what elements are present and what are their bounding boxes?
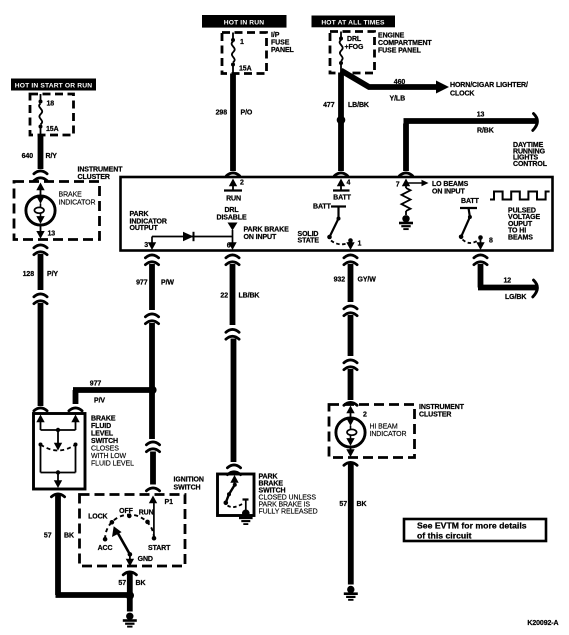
inline connector on wire 22 bbox=[226, 329, 239, 339]
wire end cap at ignition switch P1 bbox=[146, 488, 159, 491]
svg-text:BRAKE: BRAKE bbox=[59, 192, 83, 199]
fuse DRL+FOG bbox=[339, 32, 364, 73]
DRL control module box U1 bbox=[121, 177, 553, 251]
exit arrow at cluster 2 bottom bbox=[346, 447, 354, 458]
connector below pin 6 bbox=[226, 255, 239, 265]
svg-text:18: 18 bbox=[47, 101, 55, 108]
svg-text:K20092-A: K20092-A bbox=[527, 620, 558, 627]
svg-text:WITH LOW: WITH LOW bbox=[91, 453, 126, 460]
svg-text:460: 460 bbox=[394, 79, 406, 86]
svg-text:I/P: I/P bbox=[271, 32, 280, 39]
svg-text:CLUSTER: CLUSTER bbox=[419, 412, 451, 419]
svg-text:CLOSED UNLESS: CLOSED UNLESS bbox=[259, 495, 317, 502]
ignition switch lever bbox=[112, 526, 132, 556]
svg-text:P/V: P/V bbox=[94, 398, 105, 405]
svg-text:INDICATOR: INDICATOR bbox=[59, 200, 96, 207]
svg-text:LB/BK: LB/BK bbox=[348, 102, 369, 109]
svg-text:PARK BRAKE IS: PARK BRAKE IS bbox=[259, 502, 311, 509]
svg-text:SWITCH: SWITCH bbox=[259, 488, 286, 495]
svg-text:BATT: BATT bbox=[461, 198, 480, 205]
wire 12 LG/BK bbox=[478, 264, 537, 301]
svg-text:PANEL: PANEL bbox=[271, 47, 295, 54]
brake fluid level switch box bbox=[34, 414, 86, 490]
svg-text:CLOCK: CLOCK bbox=[450, 91, 474, 98]
pulsed voltage label bbox=[508, 207, 541, 241]
terminal 2 arrow into cluster bbox=[346, 406, 367, 420]
svg-text:HORN/CIGAR LIGHTER/: HORN/CIGAR LIGHTER/ bbox=[450, 82, 528, 89]
svg-text:P/Y: P/Y bbox=[47, 271, 58, 278]
fuse panel box (I/P fuse panel, left) bbox=[30, 94, 74, 135]
connector below pin 3 bbox=[145, 255, 158, 265]
inline connector on wire 932 bbox=[344, 306, 357, 316]
wire 977 middle segment bbox=[149, 323, 155, 439]
label HORN/CIGAR LIGHTER/CLOCK bbox=[450, 82, 528, 98]
instrument cluster box (hi beam indicator) bbox=[329, 405, 415, 458]
svg-text:OFF: OFF bbox=[119, 508, 134, 515]
park brake switch label bbox=[259, 474, 318, 516]
power feed header HOT IN RUN bbox=[202, 15, 287, 28]
svg-text:INSTRUMENT: INSTRUMENT bbox=[78, 167, 124, 174]
fuse 1, 15A bbox=[231, 33, 252, 74]
inline connector on wire 128 bbox=[34, 294, 47, 304]
svg-text:6: 6 bbox=[227, 243, 231, 250]
svg-text:1: 1 bbox=[358, 241, 362, 248]
svg-text:PARK: PARK bbox=[130, 211, 149, 218]
park brake switch box bbox=[218, 474, 255, 516]
svg-text:See EVTM for more details: See EVTM for more details bbox=[417, 521, 527, 531]
svg-text:BEAMS: BEAMS bbox=[508, 235, 533, 242]
instrument cluster box (brake indicator) bbox=[14, 182, 100, 240]
svg-text:OUTPUT: OUTPUT bbox=[130, 225, 159, 232]
svg-text:P1: P1 bbox=[165, 499, 174, 506]
svg-text:640: 640 bbox=[22, 153, 34, 160]
wire 22 lower segment bbox=[231, 339, 237, 463]
wire 932 middle segment bbox=[348, 315, 354, 356]
svg-text:2: 2 bbox=[240, 180, 244, 187]
svg-text:15A: 15A bbox=[239, 66, 252, 73]
junction 977 branch bbox=[148, 386, 156, 394]
wire 977 lowest segment bbox=[150, 452, 156, 485]
wire 977 P/V branch to brake fluid switch bbox=[73, 381, 153, 405]
svg-text:298: 298 bbox=[216, 110, 228, 117]
inline connector on wire 640 bbox=[34, 171, 47, 181]
wire 13 R/BK bbox=[404, 112, 538, 172]
wire 57 BK (right) bbox=[339, 464, 366, 585]
solid state switch (right, BATT to pin 8) bbox=[459, 198, 493, 250]
svg-text:CONTROL: CONTROL bbox=[513, 161, 548, 168]
power feed header HOT IN START OR RUN bbox=[11, 79, 96, 91]
wire 298 P/O bbox=[216, 74, 253, 172]
svg-text:LG/BK: LG/BK bbox=[505, 294, 526, 301]
svg-text:LO BEAMS: LO BEAMS bbox=[432, 181, 469, 188]
svg-text:CLUSTER: CLUSTER bbox=[78, 174, 110, 181]
park indicator output label bbox=[130, 211, 167, 232]
svg-text:DISABLE: DISABLE bbox=[216, 215, 246, 222]
svg-text:HOT AT ALL TIMES: HOT AT ALL TIMES bbox=[321, 19, 385, 26]
pin 2 RUN input bbox=[224, 179, 244, 203]
svg-text:2: 2 bbox=[363, 412, 367, 419]
wire 128 lower segment bbox=[38, 303, 44, 406]
wire 932 lowest segment bbox=[348, 369, 354, 400]
pin 13 exit of cluster bbox=[36, 225, 55, 239]
wire 477 LB/BK bbox=[323, 73, 369, 172]
svg-text:P/O: P/O bbox=[241, 110, 253, 117]
pin 7 LO BEAMS ON input bbox=[396, 179, 469, 196]
label HI BEAM INDICATOR bbox=[370, 424, 407, 438]
ground G1 bbox=[123, 613, 137, 627]
svg-text:ON INPUT: ON INPUT bbox=[244, 234, 277, 241]
svg-text:INSTRUMENT: INSTRUMENT bbox=[419, 404, 465, 411]
wire end cap below cluster 2 bbox=[344, 462, 357, 465]
pin 3 park indicator output bbox=[144, 237, 156, 251]
svg-text:12: 12 bbox=[504, 278, 512, 285]
wire end cap at DRL module pin 2 bbox=[226, 173, 239, 176]
brake indicator bulb bbox=[26, 196, 55, 225]
svg-text:BRAKE: BRAKE bbox=[259, 481, 284, 488]
ground G2 at park brake switch bbox=[239, 510, 253, 525]
svg-text:932: 932 bbox=[334, 277, 346, 284]
connector below pin 1 bbox=[344, 255, 357, 265]
svg-text:PARK: PARK bbox=[259, 474, 278, 481]
ignition switch label bbox=[174, 477, 204, 492]
DRL disable label bbox=[216, 207, 246, 222]
svg-text:13: 13 bbox=[477, 112, 485, 119]
svg-text:ACC: ACC bbox=[98, 545, 113, 552]
wire 57 BK (left) bbox=[44, 495, 130, 595]
brake fluid switch internals bbox=[36, 415, 79, 489]
wire 22 LB/BK bbox=[220, 264, 259, 325]
svg-text:SWITCH: SWITCH bbox=[174, 485, 201, 492]
svg-text:BK: BK bbox=[357, 501, 367, 508]
connector below pin 8 bbox=[474, 255, 487, 265]
pulsed voltage waveform bbox=[490, 192, 550, 200]
fuse panel box (engine compartment) bbox=[330, 32, 375, 74]
pin 6 park brake on input bbox=[227, 242, 237, 250]
ignition switch box bbox=[80, 495, 186, 567]
svg-text:RUN: RUN bbox=[226, 196, 241, 203]
label BRAKE INDICATOR bbox=[59, 192, 96, 207]
wire end cap below ignition GND bbox=[123, 572, 136, 575]
wire end cap at cluster 2 bbox=[344, 402, 357, 405]
svg-text:Y/LB: Y/LB bbox=[390, 96, 406, 103]
svg-text:P/W: P/W bbox=[161, 280, 174, 287]
svg-text:22: 22 bbox=[220, 293, 228, 300]
wire end cap at DRL module pin 7 bbox=[399, 173, 412, 176]
svg-text:3: 3 bbox=[144, 242, 148, 249]
wire 460 Y/LB branch to horn/cigar lighter bbox=[341, 71, 449, 103]
svg-text:7: 7 bbox=[396, 182, 400, 189]
fuse 18, 15A bbox=[39, 94, 59, 135]
svg-text:BATT: BATT bbox=[333, 195, 352, 202]
GND exit of ignition switch bbox=[126, 554, 134, 566]
wire 977 P/W bbox=[136, 264, 174, 310]
label BRAKE FLUID LEVEL SWITCH bbox=[91, 416, 134, 468]
inline connector below cluster bbox=[34, 245, 47, 255]
wire 128 P/Y bbox=[23, 254, 59, 290]
svg-text:FLUID LEVEL: FLUID LEVEL bbox=[91, 461, 134, 468]
svg-text:SWITCH: SWITCH bbox=[91, 438, 118, 445]
svg-text:GY/W: GY/W bbox=[358, 277, 377, 284]
ignition switch rotary contacts bbox=[103, 514, 157, 542]
wire end cap below brake fluid switch bbox=[51, 494, 64, 497]
svg-text:DRL: DRL bbox=[347, 36, 362, 43]
label I/P FUSE PANEL bbox=[271, 32, 295, 54]
terminal arrow into cluster top bbox=[36, 183, 44, 198]
wire 932 GY/W bbox=[334, 264, 377, 302]
junction with wire from brake fluid switch bbox=[126, 591, 134, 599]
svg-text:START: START bbox=[148, 545, 171, 552]
svg-text:BK: BK bbox=[64, 533, 74, 540]
DRL disable triangle bbox=[228, 223, 238, 231]
svg-text:8: 8 bbox=[489, 238, 493, 245]
ground G3 bbox=[344, 586, 358, 600]
svg-text:LOCK: LOCK bbox=[88, 514, 107, 521]
svg-text:BATT: BATT bbox=[313, 204, 332, 211]
svg-text:ON INPUT: ON INPUT bbox=[432, 189, 465, 196]
svg-text:of this circuit: of this circuit bbox=[417, 531, 472, 541]
svg-text:4: 4 bbox=[347, 180, 351, 187]
internal wire pin3 to pin6 with diode bbox=[152, 230, 233, 248]
svg-text:BK: BK bbox=[136, 580, 146, 587]
wire end cap at DRL module pin 4 bbox=[334, 173, 347, 176]
resistor to ground at pin 7 bbox=[402, 184, 411, 215]
solid state label bbox=[298, 231, 320, 245]
svg-text:13: 13 bbox=[48, 231, 56, 238]
svg-text:FLUID: FLUID bbox=[91, 423, 111, 430]
svg-text:DRL: DRL bbox=[224, 207, 239, 214]
inline connector on wire 977 lower bbox=[146, 442, 159, 452]
svg-text:1: 1 bbox=[240, 39, 244, 46]
wire 57 BK below ignition bbox=[118, 573, 145, 593]
svg-text:977: 977 bbox=[136, 280, 148, 287]
instrument cluster label (right) bbox=[419, 404, 465, 419]
wire 640 R/Y bbox=[22, 135, 58, 169]
wire to ground G1 bbox=[127, 596, 133, 612]
inline connector on wire 977 bbox=[145, 314, 158, 324]
svg-text:HOT IN START OR RUN: HOT IN START OR RUN bbox=[15, 83, 92, 90]
svg-text:15A: 15A bbox=[46, 126, 59, 133]
label DAYTIME RUNNING LIGHTS CONTROL bbox=[513, 142, 548, 168]
svg-text:COMPARTMENT: COMPARTMENT bbox=[378, 40, 432, 47]
svg-text:FUSE: FUSE bbox=[271, 40, 290, 47]
solid state switch (left, BATT to pin 1) bbox=[313, 204, 362, 251]
svg-text:LEVEL: LEVEL bbox=[91, 431, 114, 438]
svg-text:+FOG: +FOG bbox=[345, 44, 365, 51]
svg-text:128: 128 bbox=[23, 271, 35, 278]
svg-text:INDICATOR: INDICATOR bbox=[370, 431, 407, 438]
pin 4 BATT input bbox=[333, 179, 352, 202]
svg-text:57: 57 bbox=[118, 580, 126, 587]
ignition position labels bbox=[88, 508, 171, 563]
svg-text:477: 477 bbox=[323, 102, 335, 109]
svg-text:STATE: STATE bbox=[298, 238, 320, 245]
fuse panel box (I/P fuse panel, middle) bbox=[222, 33, 267, 74]
wire end cap at brake fluid switch bbox=[34, 408, 47, 411]
instrument cluster label (left) bbox=[78, 167, 124, 182]
svg-text:HI BEAM: HI BEAM bbox=[370, 424, 398, 431]
diode CR1 bbox=[183, 232, 194, 241]
svg-text:ENGINE: ENGINE bbox=[378, 33, 405, 40]
park brake switch internals bbox=[224, 475, 249, 510]
inline connector on wire 932 lower bbox=[344, 360, 357, 370]
terminal P1 bbox=[149, 496, 173, 539]
svg-text:BRAKE: BRAKE bbox=[91, 416, 116, 423]
svg-text:FULLY RELEASED: FULLY RELEASED bbox=[259, 509, 318, 516]
svg-text:PARK BRAKE: PARK BRAKE bbox=[244, 227, 290, 234]
svg-text:R/BK: R/BK bbox=[477, 128, 494, 135]
svg-text:LB/BK: LB/BK bbox=[239, 293, 260, 300]
svg-text:HOT IN RUN: HOT IN RUN bbox=[224, 19, 265, 26]
connector at park brake switch bbox=[227, 465, 240, 475]
svg-text:IGNITION: IGNITION bbox=[174, 477, 204, 484]
svg-text:CLOSES: CLOSES bbox=[91, 446, 119, 453]
svg-text:57: 57 bbox=[339, 501, 347, 508]
svg-text:GND: GND bbox=[138, 556, 153, 563]
label ENGINE COMPARTMENT FUSE PANEL bbox=[378, 33, 432, 55]
svg-text:57: 57 bbox=[44, 533, 52, 540]
svg-text:RUN: RUN bbox=[139, 510, 154, 517]
svg-text:FUSE PANEL: FUSE PANEL bbox=[378, 48, 422, 55]
ground inside DRL module bbox=[399, 215, 413, 229]
wire end cap at brake fluid switch right terminal bbox=[69, 408, 82, 411]
see EVTM note box bbox=[404, 519, 546, 541]
svg-text:R/Y: R/Y bbox=[46, 153, 58, 160]
park brake on input label bbox=[244, 227, 290, 242]
power feed header HOT AT ALL TIMES bbox=[312, 16, 396, 28]
hi beam indicator bulb bbox=[336, 418, 365, 447]
svg-text:977: 977 bbox=[90, 381, 102, 388]
